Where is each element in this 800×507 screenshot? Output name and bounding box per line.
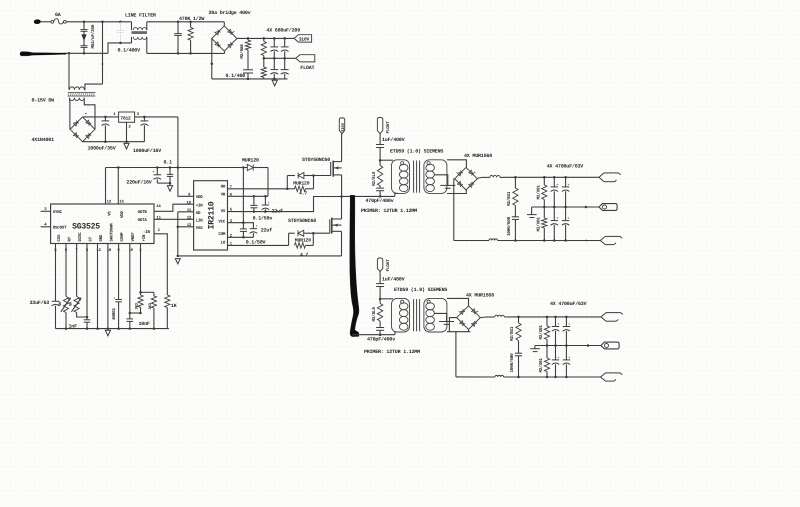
svg-text:+: + — [268, 201, 270, 205]
wire: lower bank top rail — [519, 316, 602, 318]
svg-text:20a bridge 400v: 20a bridge 400v — [209, 10, 251, 16]
svg-text:M2/8G1: M2/8G1 — [506, 191, 512, 206]
bridge rectifier 20A 400V — [212, 26, 237, 51]
wire: drain to 310V — [341, 134, 343, 162]
resistor bleeder upper — [263, 38, 265, 41]
resistor 470K 1/2W — [190, 22, 192, 28]
regulator 7812 — [119, 112, 135, 122]
svg-text:0.1/50v: 0.1/50v — [253, 216, 273, 222]
svg-text:470pF/400v: 470pF/400v — [367, 336, 395, 342]
svg-text:GND: GND — [99, 234, 104, 242]
tag output 0 lower — [601, 342, 619, 349]
capacitor 1000uF/16V — [143, 117, 145, 121]
svg-text:SG3525: SG3525 — [72, 223, 100, 232]
svg-text:M2/8L9: M2/8L9 — [371, 171, 377, 186]
wire: bridge minus drop — [211, 39, 213, 79]
svg-text:CSS: CSS — [57, 234, 62, 242]
wire: Q1 source to phase — [341, 175, 343, 197]
svg-text:1000uF/35V: 1000uF/35V — [88, 145, 116, 151]
svg-text:M2/8L9: M2/8L9 — [371, 307, 377, 322]
svg-text:MUR120: MUR120 — [295, 238, 311, 244]
transformer T1 ETD59 upper — [392, 160, 410, 194]
pin VC(13) — [105, 168, 107, 205]
resistor M2/X01 upper-bot — [543, 207, 545, 218]
svg-text:ETD59 (1.0) SIEMENS: ETD59 (1.0) SIEMENS — [390, 149, 443, 155]
svg-text:4X 4700uF/63V: 4X 4700uF/63V — [550, 301, 587, 307]
transistor Q2 STGY50NC60 — [313, 232, 330, 234]
capacitor 220uF/16V — [156, 168, 158, 175]
resistor M2/8L9 upper — [379, 160, 381, 165]
svg-text:+: + — [476, 309, 478, 314]
wire: VDD feed — [178, 168, 194, 197]
wire: T2 sec bottom rail — [447, 331, 470, 333]
svg-text:OUTA: OUTA — [138, 218, 148, 223]
tag FLOAT (bus) — [296, 55, 315, 62]
capacitor 4700uF #5 — [555, 317, 557, 326]
svg-text:+: + — [113, 297, 115, 301]
wire: VREF-3K3 link — [130, 312, 141, 314]
resistor M2/9A6 snubber — [247, 38, 249, 40]
svg-text:VS: VS — [221, 209, 226, 214]
capacitor 1nF (CT) — [86, 244, 88, 320]
wire: mains N rail — [66, 52, 108, 54]
svg-text:+IN: +IN — [196, 203, 204, 208]
capacitor 680uF #3 — [273, 58, 275, 69]
IC U2 IR2110 — [194, 181, 228, 250]
wire: COM/source return — [178, 255, 342, 257]
svg-text:+: + — [568, 355, 570, 359]
transformer 0-15V 8W — [68, 53, 70, 89]
trimmer RT — [65, 244, 67, 297]
resistor M2/X01 lower-top — [546, 317, 548, 326]
svg-text:LIN: LIN — [196, 218, 204, 223]
svg-text:220uF/16V: 220uF/16V — [126, 179, 151, 185]
fuse F1 6A — [51, 20, 54, 23]
svg-text:+: + — [568, 182, 570, 186]
capacitor 4700uF #2 — [565, 177, 567, 186]
wire: T2 primary bottom lead — [395, 332, 398, 335]
capacitor + varistor string across input — [83, 22, 85, 30]
wire: lower return drop — [455, 332, 457, 377]
tag FLOAT (upper primary) — [377, 118, 382, 134]
svg-text:0.1/50V: 0.1/50V — [246, 239, 266, 245]
capacitor 4700uF #7 — [555, 346, 557, 360]
wire: VS line — [228, 197, 342, 212]
wire: +12V feed down — [177, 117, 179, 168]
diode MUR120 bootstrap — [243, 167, 247, 169]
wire: bottom rail (minus) — [212, 78, 288, 80]
resistor M2/8G1 upper bank — [514, 177, 516, 188]
wire OUTB to HIN — [154, 204, 194, 211]
tag output + upper — [599, 173, 604, 182]
svg-text:RT: RT — [67, 236, 72, 241]
wire: bridge AC top lead — [223, 22, 225, 26]
svg-text:+: + — [568, 216, 570, 220]
capacitor 0.1/400 snubber — [243, 69, 253, 71]
svg-text:0.1/400: 0.1/400 — [226, 73, 246, 79]
ground (control) — [167, 186, 172, 192]
wire: T1 primary top lead — [380, 159, 393, 161]
svg-text:VB: VB — [221, 193, 226, 198]
wire: T2 sec top to bridge — [447, 298, 469, 306]
ground (upper bank mid) — [531, 207, 533, 214]
wire -IN to 1K — [154, 234, 167, 295]
capacitor 22uf bootstrap — [264, 196, 266, 205]
svg-text:7812: 7812 — [120, 116, 131, 122]
bridge rectifier 4X MUR1560 upper — [455, 167, 478, 190]
svg-text:VSS: VSS — [196, 226, 204, 231]
gate network upper: diode MUR120 + 4.7 — [286, 176, 288, 189]
transformer T2 ETD59 lower — [392, 298, 410, 332]
capacitor COMP — [118, 244, 120, 300]
svg-text:SHUTDOWN: SHUTDOWN — [109, 223, 114, 242]
tag output 0 upper — [599, 204, 617, 211]
svg-text:COM: COM — [218, 232, 226, 237]
wire: mains L rail (fuse to bridge top) — [66, 21, 131, 23]
resistor M2/X01 upper-top — [543, 177, 545, 185]
pin VDD(15) — [117, 168, 119, 205]
svg-text:4.7: 4.7 — [300, 252, 308, 258]
wire: blob to fuse — [40, 21, 51, 23]
svg-text:6A: 6A — [55, 12, 61, 18]
svg-text:VC: VC — [107, 211, 112, 216]
capacitor 1000uF/35V — [104, 117, 106, 121]
capacitor 1000/500 upper bank — [512, 216, 519, 218]
wire: bridge plus rail — [237, 37, 294, 39]
svg-text:0.1: 0.1 — [164, 159, 173, 165]
svg-text:MUR120: MUR120 — [293, 180, 309, 186]
svg-text:MUR120: MUR120 — [242, 157, 259, 163]
wire: bridge AC bottom lead — [224, 51, 226, 53]
svg-text:0.1/400V: 0.1/400V — [118, 48, 141, 54]
svg-text:0-15V 8W: 0-15V 8W — [32, 98, 55, 104]
tag output - lower — [601, 373, 606, 381]
ground (lower bank mid) — [534, 346, 536, 349]
svg-text:+: + — [557, 322, 559, 326]
capacitor 680uF #1 — [273, 38, 275, 46]
wire: bridge+ to choke — [477, 177, 482, 178]
svg-text:+IN: +IN — [142, 234, 147, 242]
wire: aux ground rail — [83, 141, 145, 143]
svg-text:LINE FILTER: LINE FILTER — [125, 13, 156, 19]
svg-text:M2/X01: M2/X01 — [538, 325, 544, 340]
svg-text:4X MUR1560: 4X MUR1560 — [466, 292, 494, 298]
wire: bootstrap to VB — [267, 168, 269, 197]
svg-text:1K: 1K — [171, 303, 177, 309]
pin SYNC(3) — [41, 210, 51, 212]
svg-text:VDD: VDD — [120, 210, 125, 218]
resistor M2/8G1 lower bank — [518, 317, 520, 323]
svg-text:+: + — [233, 30, 235, 35]
svg-text:-IN: -IN — [143, 230, 151, 235]
trimmer DISC — [76, 244, 78, 297]
svg-text:1000/500: 1000/500 — [509, 353, 515, 373]
svg-text:470K 1/2W: 470K 1/2W — [179, 16, 204, 22]
capacitor 470pF/400v upper — [376, 187, 384, 189]
wire: aux +12 raw rail — [83, 116, 119, 118]
svg-text:+: + — [556, 216, 558, 220]
svg-text:310V: 310V — [341, 122, 346, 132]
resistor 1K — [165, 295, 170, 308]
wire VREF pin — [129, 244, 131, 319]
svg-text:+: + — [474, 171, 476, 176]
capacitor 33uF/63 (CSS) — [55, 244, 57, 302]
resistor M2/8L9 lower — [379, 299, 381, 304]
svg-text:1000uF/16V: 1000uF/16V — [133, 148, 161, 154]
wire: bridge+ to choke lower — [480, 316, 486, 319]
capacitor across line (after filter) — [177, 22, 179, 34]
capacitor 10nF — [127, 318, 134, 320]
transistor Q1 STGY50NC60 — [314, 175, 331, 177]
resistor 3K3 #2 — [153, 292, 155, 296]
svg-text:10nF: 10nF — [139, 321, 150, 327]
svg-text:COMP: COMP — [120, 232, 125, 242]
svg-text:HO: HO — [221, 185, 226, 190]
wire: T1 sec top to bridge — [447, 160, 467, 168]
capacitor 4700uF #4 — [565, 207, 567, 220]
svg-text:470pF/400v: 470pF/400v — [366, 198, 394, 204]
svg-text:4.7: 4.7 — [299, 190, 307, 196]
ground (SG3525 net) — [105, 330, 110, 336]
svg-text:33uF/63: 33uF/63 — [30, 300, 50, 306]
svg-text:M2/X01: M2/X01 — [536, 217, 542, 232]
svg-text:4X 680uF/200: 4X 680uF/200 — [266, 27, 300, 33]
capacitor 0.1/50v bootstrap — [253, 196, 255, 205]
wire+capacitor 1uF/400V lower — [379, 272, 381, 284]
inductor output choke upper- — [489, 239, 498, 241]
svg-text:M52/uF/250: M52/uF/250 — [90, 24, 96, 48]
svg-text:PRIMER: 12TUR 1.12MM: PRIMER: 12TUR 1.12MM — [364, 349, 420, 355]
wire: HO line — [228, 188, 288, 190]
svg-text:+: + — [556, 182, 558, 186]
capacitor 4700uF #6 — [565, 317, 567, 326]
svg-text:VCC: VCC — [218, 220, 226, 225]
svg-text:+: + — [568, 322, 570, 326]
svg-text:3K3: 3K3 — [148, 302, 153, 309]
svg-text:DISC: DISC — [78, 232, 83, 242]
resistor bleeder lower — [263, 58, 265, 67]
tag output - upper — [600, 236, 605, 244]
wire: COM line — [228, 236, 254, 238]
wire: T2 primary top lead — [380, 298, 393, 300]
wire+capacitor 1uF/400V upper — [379, 134, 381, 145]
capacitor 680uF #2 — [284, 38, 286, 46]
wire: VCC line — [228, 223, 254, 229]
hand-drawn thick marker wire (phase to lower primary) — [350, 195, 359, 336]
wire: 7812 gnd pin — [126, 122, 128, 141]
IC U1 SG3525 — [51, 204, 154, 244]
svg-text:FLOAT: FLOAT — [386, 259, 391, 272]
svg-text:4X 4700uF/63V: 4X 4700uF/63V — [547, 164, 584, 170]
svg-text:LO: LO — [221, 241, 226, 246]
wire: upper bank mid rail — [532, 206, 599, 208]
bridge rectifier 4X MUR1560 lower — [457, 306, 481, 330]
line filter common-mode choke — [131, 22, 133, 30]
svg-text:1000/500: 1000/500 — [506, 216, 512, 236]
svg-text:M2/9A6: M2/9A6 — [239, 44, 245, 59]
wire: control ground rail — [56, 328, 169, 330]
bridge rectifier 4X1N4001 — [70, 117, 95, 142]
pin OSCOUT(4) — [41, 226, 51, 228]
wire: +12V rail — [106, 167, 244, 169]
capacitor 0.1/400V X-cap (faint) — [119, 22, 121, 30]
resistor 3K3 #1 — [138, 295, 143, 307]
svg-text:STGY50NC60: STGY50NC60 — [288, 218, 316, 224]
wire: VCC drop — [242, 168, 244, 223]
svg-text:+: + — [256, 225, 258, 229]
wire: T1 sec bottom rail — [447, 193, 467, 195]
svg-text:4X MUR1560: 4X MUR1560 — [464, 153, 492, 159]
capacitor 1000/500 lower bank — [515, 352, 522, 354]
tag 310V (half-bridge) — [339, 118, 344, 134]
tag FLOAT (lower primary) — [377, 258, 382, 272]
ground (driver) — [175, 259, 180, 264]
junction dots on N rail — [68, 52, 71, 55]
capacitor 470pF/400v lower — [376, 327, 384, 329]
inductor output choke upper+ — [482, 176, 490, 178]
junction dots on L rail — [83, 21, 86, 24]
svg-text:OUTB: OUTB — [138, 210, 148, 215]
wire: SD-VSS ground drop — [177, 212, 179, 256]
svg-text:-: - — [456, 172, 458, 176]
input terminal L (hand-drawn blob) — [34, 19, 41, 24]
wire +IN pin — [140, 244, 142, 296]
svg-text:M2/X01: M2/X01 — [536, 185, 542, 200]
capacitor 0.1 decoupling — [169, 168, 171, 175]
svg-text:M2/X01: M2/X01 — [538, 358, 544, 373]
svg-text:+: + — [152, 170, 154, 175]
ground (aux) — [124, 143, 129, 149]
wire: upper bank bottom rail — [454, 240, 489, 242]
junction dots — [177, 52, 180, 55]
svg-text:FLOAT: FLOAT — [300, 65, 314, 71]
svg-text:SYNC: SYNC — [53, 210, 63, 215]
wire: upper return drop — [454, 178, 455, 180]
svg-text:PRIMER: 12TUR 1.12MM: PRIMER: 12TUR 1.12MM — [361, 208, 417, 214]
wire: phase rail — [342, 195, 395, 197]
capacitor 4700uF #1 — [553, 177, 555, 186]
wire: lower bank mid rail — [535, 345, 601, 347]
gate network lower: diode MUR120 + 4.7 — [288, 233, 290, 245]
svg-text:4X1N4001: 4X1N4001 — [32, 137, 55, 143]
capacitor 0.1/50V low side — [242, 223, 244, 229]
wire: +IN to divider top — [141, 291, 154, 293]
svg-text:+: + — [557, 355, 559, 359]
svg-text:1uF/400V: 1uF/400V — [382, 137, 405, 143]
svg-text:-: - — [458, 310, 460, 314]
tag output + lower — [601, 313, 606, 322]
svg-text:SD: SD — [196, 211, 201, 216]
svg-text:M2/8G1: M2/8G1 — [509, 326, 515, 341]
svg-text:VDD: VDD — [196, 195, 204, 200]
wire: lower bank bottom rail — [456, 376, 495, 378]
wire: mid rail of cap bank — [264, 57, 296, 59]
junction dots on plus rail — [247, 37, 250, 40]
wire: upper bank top rail — [515, 176, 599, 178]
wire: 7812 output rail — [135, 116, 178, 118]
capacitor 4700uF #8 — [565, 346, 567, 360]
svg-text:3K3: 3K3 — [134, 302, 139, 309]
wire: LO line — [228, 244, 289, 246]
capacitor 680uF #4 — [284, 58, 286, 69]
wire: aux secondary leads — [69, 101, 71, 129]
wire: Q2 source to return — [341, 231, 343, 256]
wire SHUTDOWN pin — [107, 244, 109, 329]
svg-text:310V: 310V — [299, 36, 310, 42]
svg-text:STGY50NC60: STGY50NC60 — [302, 157, 330, 163]
wire: T1 primary bottom lead — [395, 193, 398, 196]
svg-text:FLOAT: FLOAT — [386, 121, 391, 134]
resistor M2/X01 lower-bot — [546, 346, 548, 359]
svg-text:CT: CT — [88, 236, 93, 241]
wire GND pin — [97, 244, 99, 329]
ground (input bank) — [272, 80, 277, 86]
capacitor 22uf low side — [250, 228, 257, 230]
svg-text:1uF/400V: 1uF/400V — [382, 276, 405, 282]
input terminal N (hand-drawn thick stroke) — [20, 52, 66, 56]
wire OUTA to LIN — [154, 218, 194, 220]
tag 310V (bus) — [294, 35, 312, 42]
svg-text:IR2110: IR2110 — [208, 201, 217, 229]
wire: T2 secondary center tap + ground — [434, 313, 446, 321]
inductor output choke lower+ — [486, 316, 495, 318]
svg-text:-: - — [213, 31, 215, 35]
wire: lower bridge AC2 link — [449, 318, 456, 332]
svg-text:4N001: 4N001 — [112, 307, 117, 320]
wire: T1 secondary center tap + ground — [434, 175, 448, 186]
svg-text:VREF: VREF — [131, 232, 136, 242]
wire: Q2 drain to phase — [341, 197, 343, 220]
capacitor 4700uF #3 — [553, 207, 555, 220]
junction dots +12V rail — [117, 166, 120, 169]
svg-text:OSCOUT: OSCOUT — [53, 226, 67, 231]
wire: lower phase rail — [352, 334, 395, 336]
svg-text:22uf: 22uf — [261, 227, 272, 233]
inductor output choke lower- — [495, 375, 504, 377]
svg-text:ETD59 (1.0) SIEMENS: ETD59 (1.0) SIEMENS — [394, 287, 447, 293]
